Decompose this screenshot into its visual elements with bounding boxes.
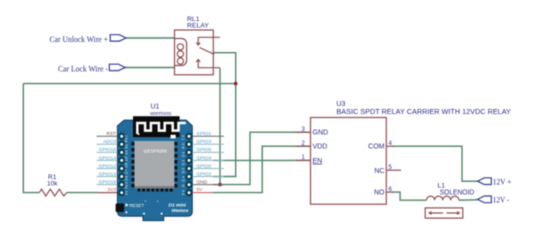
U1 castellated pads bottom	[138, 189, 173, 192]
U1 board	[117, 120, 192, 221]
U1 pin pads right	[186, 133, 192, 196]
svg-text:GPIO3: GPIO3	[197, 139, 212, 145]
svg-text:12V -: 12V -	[493, 195, 510, 205]
U3 pin names	[313, 130, 386, 197]
relay RL1 body	[175, 30, 221, 75]
svg-text:◎ESP8266: ◎ESP8266	[144, 148, 168, 153]
svg-text:GPIO1: GPIO1	[197, 131, 212, 137]
U3 pin numbers	[302, 127, 393, 193]
svg-text:VDD: VDD	[313, 144, 328, 151]
U3 relay carrier body	[311, 118, 387, 205]
inductor L1 solenoid	[427, 196, 459, 200]
svg-text:BASIC SPDT RELAY CARRIER WITH: BASIC SPDT RELAY CARRIER WITH 12VDC RELA…	[336, 107, 511, 116]
wire: car lock wire to relay coil bottom	[125, 67, 175, 69]
U1 reset button	[116, 204, 124, 213]
relay RL1 switch bottom contact	[198, 60, 220, 68]
wire: 5V row to U3 VDD	[213, 146, 311, 192]
U1 module tag	[171, 135, 176, 139]
U1 RF shield	[134, 141, 174, 188]
3V3 pin stub of U1	[98, 192, 117, 194]
svg-text:5V: 5V	[197, 187, 204, 193]
svg-text:12V +: 12V +	[493, 177, 512, 187]
wire: R1 right lead to Wemos 3V3 pin	[67, 192, 98, 194]
solenoid motion annotation box	[425, 208, 463, 218]
module U1 Wemos D1 mini	[116, 116, 193, 220]
U1 antenna meander trace	[137, 123, 186, 134]
relay RL1 switch blade	[200, 48, 214, 55]
U1 pin pads left	[119, 133, 125, 196]
svg-text:L1: L1	[438, 183, 446, 190]
svg-text:SOLENOID: SOLENOID	[440, 190, 475, 197]
svg-text:GPIO16: GPIO16	[99, 147, 117, 153]
svg-text:RESET: RESET	[129, 203, 144, 208]
U1 reset silk	[126, 203, 129, 207]
wire: car unlock wire to relay coil top	[126, 37, 175, 39]
junction node: GND row under relay	[218, 183, 222, 187]
U1 antenna block	[133, 116, 180, 137]
svg-text:GPIO2: GPIO2	[197, 172, 212, 178]
svg-text:5V 3V3 D8 D7 D6 D5 D0 A0 RST: 5V 3V3 D8 D7 D6 D5 D0 A0 RST	[125, 135, 129, 195]
U1 fiducials	[125, 211, 127, 213]
svg-text:GND: GND	[197, 180, 208, 186]
svg-text:GND: GND	[313, 130, 329, 137]
svg-text:U1: U1	[151, 103, 160, 110]
wire: GND row right to U3 GND	[220, 132, 311, 184]
svg-text:NO: NO	[374, 190, 385, 197]
svg-text:COM: COM	[368, 144, 385, 151]
U1 castellated pads right	[174, 142, 177, 187]
connector: 12V+	[478, 178, 492, 185]
U3 pin stubs	[296, 132, 402, 192]
svg-text:D1 mini: D1 mini	[169, 202, 187, 208]
connector: Car Unlock Wire	[110, 35, 126, 41]
wire: GPIO4 row to U3 EN	[213, 159, 311, 161]
junction node: 3V3 net at relay common riser	[234, 82, 238, 86]
wire: U3 NO to solenoid L1	[392, 192, 427, 200]
svg-text:RELAY: RELAY	[187, 22, 209, 29]
U1 castellated pads left	[131, 142, 134, 187]
svg-text:GPIO13: GPIO13	[99, 172, 117, 178]
svg-text:GPIO5: GPIO5	[197, 147, 212, 153]
svg-text:NC: NC	[374, 168, 384, 175]
relay RL1 switch top contact stub	[198, 37, 220, 45]
wire: relay bottom contact down to GND row	[213, 68, 220, 185]
wire: 3V3 pullup net, long run from left riser to junction under relay	[23, 83, 235, 85]
wire: L1 to 12V- connector	[459, 199, 478, 201]
svg-text:Wemos: Wemos	[172, 208, 189, 214]
svg-text:GPIO4: GPIO4	[197, 155, 212, 161]
svg-text:RST: RST	[106, 131, 116, 137]
svg-text:GPIO12: GPIO12	[99, 163, 117, 169]
svg-text:ADC0: ADC0	[103, 139, 116, 145]
svg-text:EN: EN	[313, 158, 323, 165]
svg-text:GPIO0: GPIO0	[197, 163, 212, 169]
svg-text:GPIO14: GPIO14	[99, 155, 117, 161]
wire: U3 COM to 12V+ connector	[392, 146, 478, 181]
connector: Car Lock Wire	[109, 64, 125, 70]
svg-text:3V3: 3V3	[107, 187, 116, 193]
U1 pin stubs and labels, right side	[192, 136, 224, 192]
svg-text:wemos: wemos	[149, 111, 172, 117]
svg-text:Car Lock Wire -: Car Lock Wire -	[58, 63, 108, 73]
svg-text:Car Unlock Wire +: Car Unlock Wire +	[50, 34, 109, 44]
svg-text:5V G D4 D3 D2 D1 RX TX: 5V G D4 D3 D2 D1 RX TX	[182, 134, 186, 195]
svg-text:GPIO15: GPIO15	[99, 180, 117, 186]
U1 pin stubs and labels, left side	[97, 136, 118, 184]
wire: relay common to D4/GPIO2 riser	[213, 53, 236, 177]
resistor R1	[39, 189, 66, 196]
relay RL1 coil	[175, 39, 187, 66]
wire: left riser down to R1	[23, 84, 39, 193]
svg-text:10k: 10k	[47, 180, 58, 187]
connector: 12V-	[478, 196, 492, 203]
